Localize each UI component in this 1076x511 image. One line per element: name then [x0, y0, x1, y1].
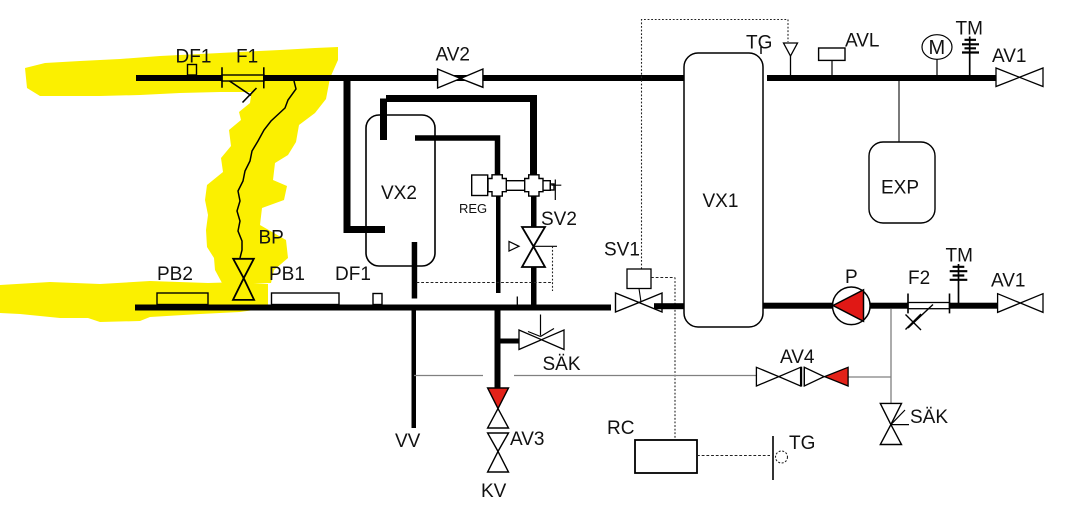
- AV4 center bars: [802, 367, 805, 387]
- svg-text:VV: VV: [395, 431, 421, 452]
- wire: SV2 stem below valve to return pipe: [531, 267, 537, 308]
- filter F2 slot outline: [908, 303, 950, 309]
- controller RC box: [635, 440, 697, 473]
- thermometer TM bottom: [958, 264, 960, 303]
- highlighter band top-left: [25, 47, 338, 96]
- wire: top supply pipe segment 1: [136, 75, 222, 81]
- wire: bottom return pipe segment 5: [950, 303, 998, 309]
- svg-text:SÄK: SÄK: [910, 407, 948, 428]
- fitting AVL box: [819, 48, 845, 60]
- wire: VV outlet from VX2 (above pipe): [412, 242, 418, 299]
- valve AV1 bottom: [998, 294, 1043, 313]
- vessel VX2: [366, 115, 435, 266]
- svg-text:EXP: EXP: [881, 178, 919, 199]
- svg-text:TM: TM: [946, 246, 973, 267]
- svg-text:VX1: VX1: [703, 191, 739, 212]
- air vent TG triangle: [784, 43, 798, 56]
- junction tick above return pipe: [516, 297, 518, 306]
- control line dotted drop to RC: [674, 278, 676, 441]
- sensor TG bottom: [772, 436, 774, 480]
- wire: EXP connection: [898, 81, 900, 143]
- svg-text:TG: TG: [746, 33, 772, 54]
- TG sensor pocket on VX1 top: [760, 47, 762, 54]
- svg-text:PB1: PB1: [269, 264, 305, 285]
- pump branch gray line: [890, 309, 892, 403]
- valve KV: [488, 433, 509, 472]
- filter F1 flange ticks: [222, 67, 264, 88]
- svg-text:AV4: AV4: [780, 347, 815, 368]
- SAK mid actuator arrow: [528, 315, 554, 337]
- wire: VV drop below return pipe: [412, 311, 417, 429]
- valve SAK mid: [519, 330, 564, 350]
- wire: AV3 drop pipe: [495, 311, 501, 389]
- REG right tick: [551, 180, 561, 201]
- fitting DF1 upper square: [188, 65, 197, 76]
- SV1 dashed branch to RC: [651, 277, 675, 279]
- SV2 actuator triangle: [509, 242, 519, 252]
- wire: top supply pipe segment 2: [264, 75, 684, 81]
- fitting DF1 lower square: [373, 294, 382, 305]
- wire: bottom return pipe segment 3: [763, 303, 833, 309]
- wire: SV2 stem above valve: [531, 191, 537, 227]
- SV2 sensing line: [534, 245, 558, 247]
- svg-text:BP: BP: [259, 228, 284, 249]
- filter F1 slot outline: [222, 75, 264, 81]
- AV4 gray line right segment: [514, 376, 891, 378]
- control line dotted loop (SV1 sensor): [642, 20, 789, 270]
- valve AV4 double bowtie: [756, 367, 824, 386]
- wire: top supply pipe segment 3: [767, 75, 996, 81]
- svg-text:TM: TM: [956, 19, 983, 40]
- svg-text:PB2: PB2: [157, 264, 193, 285]
- svg-text:M: M: [929, 37, 946, 59]
- vessel VX1: [684, 53, 763, 327]
- valve SAK right (safety): [880, 403, 901, 444]
- thermometer TM top: [969, 37, 971, 76]
- wire: thick riser left of VX2 with foot into tank: [347, 78, 385, 230]
- svg-text:VX2: VX2: [381, 183, 417, 204]
- valve SV2 (2-way control valve): [522, 227, 545, 267]
- motor M: [922, 35, 952, 60]
- filter F1 strainer: [230, 81, 257, 103]
- wire: thick stub into VX2 top: [380, 99, 387, 141]
- wire: REG left leg below (drain): [496, 191, 501, 293]
- svg-text:SV2: SV2: [541, 209, 577, 230]
- valve AV2: [438, 69, 483, 88]
- svg-text:AV1: AV1: [992, 46, 1027, 67]
- svg-text:SÄK: SÄK: [543, 354, 581, 375]
- svg-text:AV1: AV1: [991, 271, 1026, 292]
- svg-text:DF1: DF1: [335, 264, 371, 285]
- AVL stem: [831, 60, 833, 75]
- vessel EXP: [869, 142, 935, 223]
- highlighter band bottom-left: [0, 281, 268, 322]
- SV1 actuator box: [627, 269, 651, 289]
- fitting PB2: [157, 293, 208, 305]
- SV2 capillary dotted drop: [552, 246, 554, 291]
- valve BP (vertical): [233, 259, 254, 300]
- highlighter wavy vertical band (BP line): [205, 58, 338, 283]
- wire: BP hand-drawn bypass line: [237, 81, 296, 258]
- SAK right lever: [891, 410, 909, 425]
- M stem: [936, 59, 938, 75]
- svg-text:REG: REG: [459, 201, 487, 216]
- regulator REG assembly: [472, 175, 554, 196]
- AV4 gray line left segment: [414, 375, 483, 377]
- svg-text:AVL: AVL: [845, 31, 880, 52]
- AV4 red cone: [825, 367, 849, 386]
- filter F2 strainer: [906, 305, 934, 331]
- svg-text:SV1: SV1: [604, 240, 640, 261]
- valve AV3 lower cone: [488, 409, 509, 428]
- wire: thick upper loop pipe to SV2 riser: [386, 99, 534, 178]
- svg-text:TG: TG: [789, 433, 815, 454]
- svg-text:KV: KV: [481, 481, 507, 502]
- filter F2 flange ticks: [908, 294, 950, 314]
- dashed capillary from VV line to SV2: [417, 282, 554, 284]
- svg-text:RC: RC: [607, 418, 634, 439]
- SV1 actuator link: [639, 289, 641, 303]
- wire: bottom return pipe segment 4: [869, 303, 908, 309]
- fitting PB1: [272, 293, 340, 305]
- svg-text:P: P: [845, 267, 858, 288]
- valve AV1 top: [996, 68, 1043, 87]
- svg-text:F2: F2: [908, 268, 930, 289]
- dashed line RC to TG: [697, 455, 770, 457]
- air vent stem: [790, 56, 792, 75]
- wire: bottom return pipe segment 2: [654, 303, 684, 309]
- wire: thick pipe from VX2 to REG leg: [415, 138, 498, 177]
- valve SV1: [616, 293, 663, 312]
- valve AV3 red check cone: [488, 388, 509, 409]
- svg-text:F1: F1: [236, 47, 258, 68]
- wire: stub to mid SAK valve: [497, 339, 519, 344]
- svg-text:AV2: AV2: [436, 45, 471, 66]
- pump P red impeller triangle: [833, 290, 864, 322]
- wire: bottom return pipe segment 1: [135, 305, 611, 311]
- pump P circle: [833, 287, 871, 325]
- svg-text:AV3: AV3: [510, 429, 545, 450]
